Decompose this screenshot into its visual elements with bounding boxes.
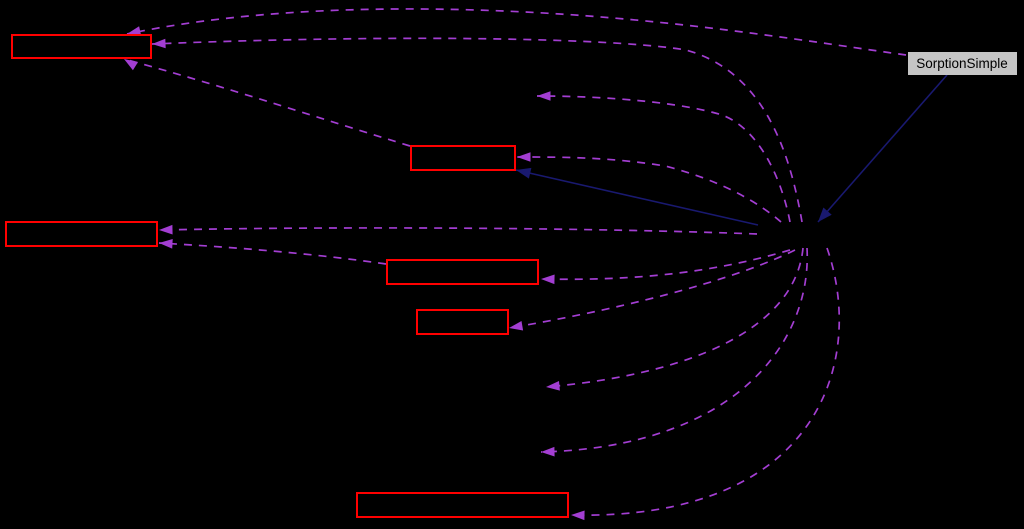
- usage edge SorptionSimple to node A (top arc) (E1): [127, 9, 906, 55]
- usage edge hidden node P to hidden node N3 (E11): [541, 248, 807, 457]
- usage edge hidden node P to node A (right edge) (E2): [152, 38, 802, 222]
- node A (red class box, label invisible on black): [12, 35, 151, 58]
- usage edge hidden node P to hidden node N2 (E10): [546, 248, 803, 391]
- usage edge hidden node P to hidden node N1 (E3): [537, 91, 790, 222]
- node SorptionSimple (current class, grey box): [908, 52, 1017, 75]
- usage edge hidden node P to node E (E9): [509, 250, 795, 331]
- usage edge hidden node P to node F (E12): [571, 248, 839, 520]
- node F (red class box, label invisible on black): [357, 493, 568, 517]
- usage edge node B to node A (bottom) (E5): [124, 59, 410, 146]
- inheritance arrow hidden base node P -> node B: [516, 168, 758, 225]
- node B (red class box, label invisible on black): [411, 146, 515, 170]
- usage edge hidden node P to node B (E4): [517, 152, 781, 222]
- usage edge hidden node P to node C (upper) (E6): [159, 225, 757, 235]
- node D (red class box, label invisible on black): [387, 260, 538, 284]
- usage edge hidden node P to node D (E8): [541, 250, 790, 284]
- node E (red class box, label invisible on black): [417, 310, 508, 334]
- svg-text:SorptionSimple: SorptionSimple: [916, 56, 1008, 71]
- usage edge node D to node C (lower) (E7): [159, 239, 386, 264]
- node C (red class box, label invisible on black): [6, 222, 157, 246]
- inheritance arrow SorptionSimple -> hidden base node P: [818, 75, 947, 222]
